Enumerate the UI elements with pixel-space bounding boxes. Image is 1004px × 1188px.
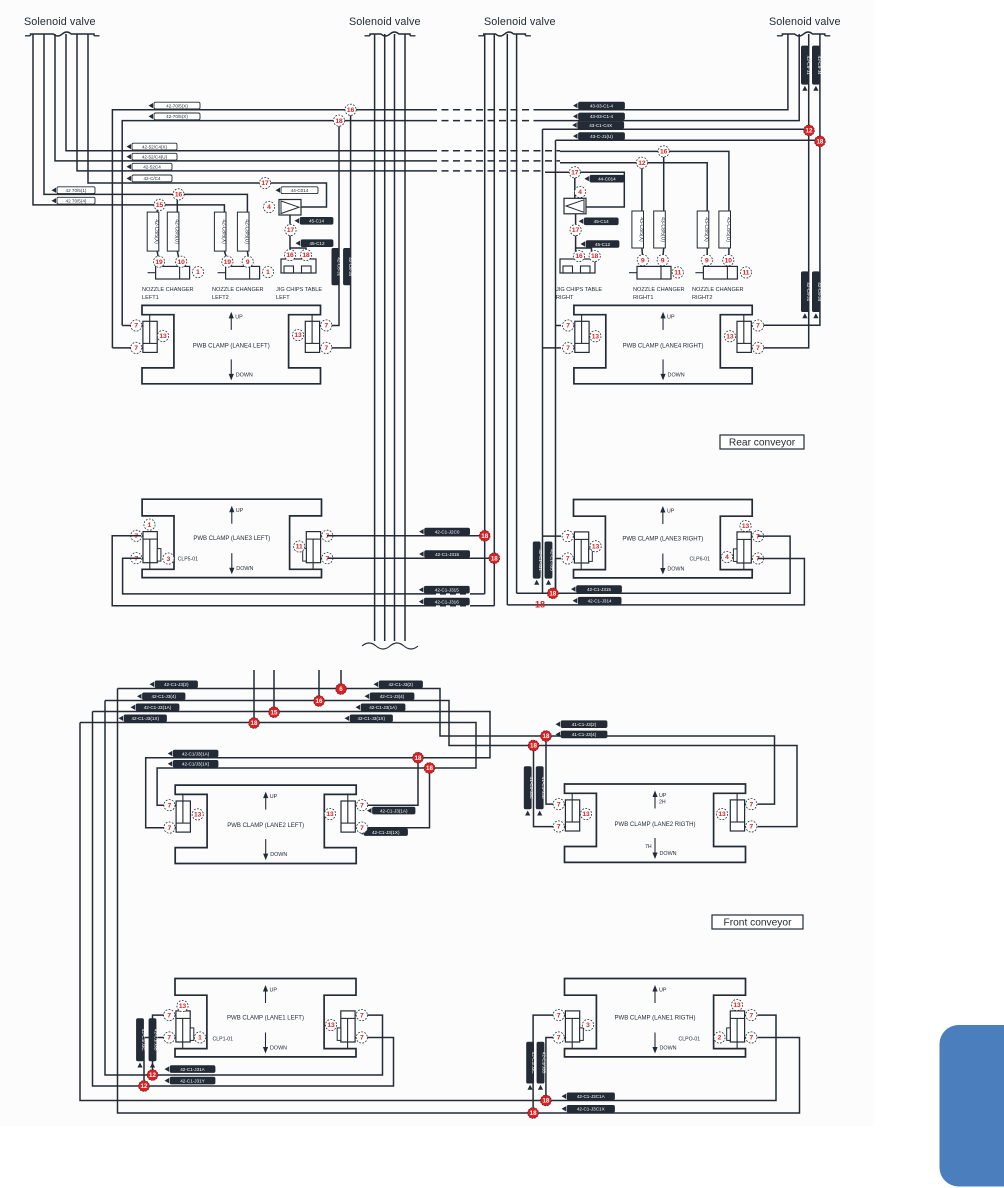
svg-text:7: 7 [566, 556, 570, 563]
svg-text:42-C/C4: 42-C/C4 [143, 176, 161, 181]
label row4 right [573, 133, 625, 140]
junction 13@595,546 [590, 541, 601, 552]
svg-text:42-52/C4(X): 42-52/C4(X) [142, 144, 167, 149]
junction 16@178,194 [173, 189, 184, 200]
svg-text:43-C8/5(U): 43-C8/5(U) [660, 217, 666, 242]
svg-text:42-C1-J315: 42-C1-J315 [435, 588, 459, 593]
label rowE [52, 187, 96, 194]
svg-text:42-C1-J35: 42-C1-J35 [550, 549, 555, 571]
solenoid valve manifold SV3 [478, 32, 531, 36]
svg-text:42-C1-J31Y: 42-C1-J31Y [180, 1078, 205, 1083]
label w4 label [168, 760, 218, 767]
label riser 347 [343, 248, 353, 285]
svg-text:UP: UP [659, 793, 667, 799]
wire SV3 line 3 [506, 34, 508, 605]
pwb clamp block LANE3 LEFT [131, 499, 333, 577]
wire 18d riser [533, 1015, 556, 1113]
label B2L right label2 [359, 829, 408, 836]
svg-text:7: 7 [324, 323, 328, 330]
svg-text:RIGHT2: RIGHT2 [692, 295, 713, 301]
svg-text:42-C1/J3C: 42-C1/J3C [531, 1052, 536, 1075]
svg-text:18: 18 [530, 1110, 537, 1117]
wire NOZ1 cyl2 drop [177, 251, 179, 266]
pwb clamp block LANE1 RIGHT [553, 979, 757, 1057]
svg-text:13: 13 [726, 334, 734, 341]
junction 18@339,120 [333, 115, 344, 126]
label rowF [52, 197, 96, 204]
junction 13@745,526 [740, 520, 751, 531]
svg-text:2: 2 [718, 1035, 722, 1042]
wire B3L 7b wire [123, 558, 430, 594]
svg-text:18: 18 [591, 253, 599, 260]
junction 13@737,1005 [731, 999, 742, 1010]
wire hanging stub c [318, 670, 320, 701]
svg-text:42-C1-J3(2): 42-C1-J3(2) [388, 682, 413, 687]
junction 17@265,183 [259, 177, 270, 188]
solenoid valve manifold SV1 [25, 32, 100, 36]
svg-text:42-52C4: 42-52C4 [143, 165, 161, 170]
wire rowF drop to NOZ1 left cyl [156, 205, 158, 212]
label wireV label [419, 598, 470, 605]
junction 11@746,272 [740, 267, 751, 278]
junction 13@197,814 [192, 809, 203, 820]
svg-text:42-C1-J3(1A): 42-C1-J3(1A) [144, 705, 172, 710]
junction 13@330,814 [324, 808, 335, 819]
wire B4L right-top riser [330, 121, 339, 326]
label r2 left [137, 693, 185, 700]
junction 13@182,1006 [177, 1000, 188, 1011]
wire stub B3R port7b-left [556, 558, 562, 560]
svg-text:1: 1 [196, 269, 200, 276]
wire right filter feed drop [574, 172, 576, 198]
junction 18@484,535 [479, 530, 490, 541]
junction 3@588,1025 [582, 1019, 593, 1030]
wire 18c riser [546, 1038, 556, 1101]
wire break squiggle SV2 [362, 643, 418, 649]
svg-text:17: 17 [287, 227, 295, 234]
wire B2R 18a drop [546, 736, 560, 804]
svg-text:18: 18 [491, 555, 498, 562]
junction 18@546,736 [541, 731, 552, 742]
label B3R vlabel1 [533, 542, 543, 585]
junction 18@594,256 [589, 250, 600, 261]
wire B2L 7b-right riser [357, 768, 430, 828]
label B2R label1 [556, 721, 608, 728]
svg-text:11: 11 [296, 544, 303, 551]
junction 18@545,1100 [541, 1095, 552, 1106]
junction 13@729,336 [724, 331, 735, 342]
junction 18@494,558 [489, 553, 500, 564]
svg-text:4: 4 [725, 554, 729, 561]
svg-text:UP: UP [270, 988, 278, 994]
svg-text:42-C1-J315: 42-C1-J315 [435, 552, 459, 557]
label r2 right [365, 693, 415, 700]
svg-text:18: 18 [543, 733, 550, 740]
wire SV3 line 2 [493, 34, 495, 606]
wire NOZR2 cyl2 low [728, 248, 730, 266]
label line2 right [573, 113, 625, 120]
svg-text:7: 7 [167, 1012, 171, 1019]
svg-text:DOWN: DOWN [660, 851, 677, 857]
svg-text:Front conveyor: Front conveyor [724, 918, 793, 929]
label 45-C12 left [296, 240, 334, 247]
junction 3@168,558 [163, 553, 174, 564]
junction 9@642,260 [637, 255, 648, 266]
svg-text:Rear conveyor: Rear conveyor [729, 438, 796, 449]
svg-text:11: 11 [743, 270, 750, 277]
junction 18@418,757 [413, 752, 424, 763]
svg-text:UP: UP [667, 314, 675, 320]
svg-text:17: 17 [571, 170, 579, 177]
junction 10@728,260 [723, 255, 734, 266]
junction 12@144,1086 [139, 1081, 150, 1092]
wire NOZR1 cyl2 drop [663, 151, 665, 211]
svg-text:DOWN: DOWN [270, 1046, 287, 1052]
wire wireA [153, 1015, 383, 1075]
svg-text:16: 16 [286, 252, 294, 259]
svg-text:CLP1-01: CLP1-01 [213, 1037, 234, 1043]
svg-text:DOWN: DOWN [667, 567, 684, 573]
label row3 right [572, 122, 624, 129]
label rowC [127, 163, 173, 170]
svg-text:42-C1-J3C1X: 42-C1-J3C1X [577, 1107, 605, 1112]
junction 9@247,261 [242, 256, 253, 267]
solenoid valve manifold SV4 [777, 32, 830, 36]
solenoid valve manifold SV2 [365, 32, 416, 36]
svg-text:42-C1-J3C1A: 42-C1-J3C1A [577, 1094, 606, 1099]
wire stub B3R port7a-left [543, 535, 562, 537]
svg-text:43-C8/5(U): 43-C8/5(U) [725, 217, 731, 242]
svg-text:13: 13 [326, 811, 334, 818]
wire NOZR1 cyl1 low [641, 248, 644, 266]
label line1 left [149, 102, 201, 109]
svg-text:13: 13 [582, 811, 590, 818]
wire row r2 [105, 701, 797, 827]
junction 18@254,723 [249, 718, 260, 729]
svg-text:7: 7 [168, 802, 172, 809]
pwb clamp block LANE4 LEFT [131, 305, 332, 383]
junction 19@227,261 [222, 256, 233, 267]
svg-text:42-C1-J3(1A): 42-C1-J3(1A) [369, 705, 397, 710]
svg-text:16: 16 [347, 107, 355, 114]
pwb clamp block LANE2 LEFT [164, 785, 368, 863]
jig chips table actuator right [560, 259, 595, 273]
nozzle changer actuator NOZ1 [148, 266, 190, 279]
pwb clamp block LANE4 RIGHT [563, 305, 764, 383]
svg-text:42-C8-J4: 42-C8-J4 [817, 56, 822, 75]
wire 12b riser [144, 1038, 165, 1087]
svg-text:18: 18 [251, 720, 258, 727]
junction 15@159,204 [154, 199, 165, 210]
svg-text:42-C1/J3C: 42-C1/J3C [141, 1029, 146, 1052]
svg-text:18: 18 [426, 765, 433, 772]
label 45-C12 right [581, 241, 620, 248]
label B2R vlabel1 [524, 767, 534, 816]
junction 13@722,814 [716, 808, 727, 819]
wire vertical 555.5 [555, 140, 557, 593]
wire row r3 loop [93, 712, 491, 828]
svg-text:19: 19 [155, 259, 163, 266]
svg-text:7: 7 [134, 345, 138, 352]
svg-text:42-C1-J314: 42-C1-J314 [588, 599, 612, 604]
rear conveyor label [720, 435, 804, 449]
svg-text:42 70/5(4): 42 70/5(4) [66, 199, 87, 204]
label NOZ2 cyl1 [214, 212, 226, 251]
svg-text:6: 6 [339, 686, 343, 693]
wire B4L left-top feed [122, 325, 131, 327]
wire NOZR2 cyl1 low [706, 248, 708, 266]
svg-text:42-C1/J3(1X): 42-C1/J3(1X) [182, 762, 210, 767]
junction 13@586,814 [580, 808, 591, 819]
svg-text:42 70/5(1): 42 70/5(1) [66, 188, 87, 193]
svg-text:42-C8-J4: 42-C8-J4 [817, 282, 822, 301]
svg-text:7: 7 [324, 345, 328, 352]
svg-text:13: 13 [159, 333, 167, 340]
svg-text:NOZZLE CHANGER: NOZZLE CHANGER [633, 287, 685, 293]
svg-text:42-C1-J2C0: 42-C1-J2C0 [435, 529, 460, 534]
svg-text:7: 7 [749, 824, 753, 831]
wire row r1 [118, 689, 775, 805]
svg-text:42-52/C4(U): 42-52/C4(U) [142, 155, 168, 160]
svg-text:7: 7 [566, 323, 570, 330]
label r1 left [150, 681, 198, 688]
svg-text:1: 1 [148, 522, 152, 529]
svg-text:45-C12: 45-C12 [309, 241, 325, 246]
jig chips table actuator left [281, 259, 316, 273]
svg-text:PWB CLAMP (LANE4 LEFT): PWB CLAMP (LANE4 LEFT) [193, 343, 270, 349]
label w3 label [168, 750, 218, 757]
wire SV2 line 1 [374, 34, 376, 641]
svg-text:7: 7 [360, 1035, 364, 1042]
svg-text:JIG CHIPS TABLE: JIG CHIPS TABLE [556, 287, 602, 293]
svg-text:42-C1-J3(1X): 42-C1-J3(1X) [131, 716, 159, 721]
svg-text:PWB CLAMP (LANE1 LEFT): PWB CLAMP (LANE1 LEFT) [227, 1016, 304, 1022]
svg-text:42-C1/J3(1A): 42-C1/J3(1A) [182, 751, 210, 756]
svg-text:10: 10 [725, 257, 733, 264]
junction 9@662,260 [657, 255, 668, 266]
junction 16@663,151 [658, 146, 669, 157]
svg-text:18: 18 [542, 1098, 549, 1105]
svg-text:NOZZLE CHANGER: NOZZLE CHANGER [142, 287, 194, 293]
label B3L right-bottom label [419, 551, 470, 558]
svg-text:CLPO-01: CLPO-01 [679, 1037, 701, 1043]
svg-text:PWB CLAMP (LANE3 RIGHT): PWB CLAMP (LANE3 RIGHT) [622, 537, 703, 543]
svg-text:7: 7 [749, 801, 753, 808]
label B1R vlabel2 [537, 1042, 547, 1090]
svg-text:1: 1 [266, 269, 270, 276]
junction 18@552,593 [547, 588, 558, 599]
label SV4 line4 low [812, 272, 822, 319]
svg-text:4: 4 [267, 204, 271, 211]
svg-text:2H: 2H [659, 800, 666, 806]
wire rowC dashed [430, 170, 545, 172]
svg-text:45-C14: 45-C14 [594, 219, 610, 224]
junction 15@274,712 [269, 707, 280, 718]
label 44-C014 left [276, 187, 319, 194]
svg-text:42-C8-J1: 42-C8-J1 [337, 257, 342, 276]
wire rowD [88, 34, 327, 207]
wire wire2 lane1 [430, 1038, 800, 1114]
label SV4 line3 top [801, 46, 811, 91]
svg-text:12: 12 [141, 1083, 148, 1090]
pwb clamp block LANE2 RIGHT [553, 784, 757, 862]
wire B2L 7a-right riser [357, 758, 418, 806]
svg-text:42-C8/5(X): 42-C8/5(X) [153, 219, 159, 244]
svg-text:19: 19 [224, 259, 232, 266]
svg-text:7: 7 [557, 801, 561, 808]
svg-text:LEFT1: LEFT1 [142, 295, 159, 301]
filter/regulator left [279, 200, 301, 216]
svg-text:7: 7 [167, 1035, 171, 1042]
junction 13@595,336 [590, 331, 601, 342]
label B1L vlabel1 [136, 1019, 146, 1068]
wire line1 dashed segment [430, 109, 540, 111]
label line2 left [149, 113, 201, 120]
svg-text:15: 15 [156, 202, 164, 209]
svg-text:42-C1-J3(1X): 42-C1-J3(1X) [357, 716, 385, 721]
wire B3L 7a wire dashed [430, 605, 475, 607]
svg-text:7H: 7H [645, 844, 652, 850]
wire left jig branch [290, 248, 306, 259]
label B3R vlabel2 [545, 542, 555, 585]
label NOZR1 cyl2 [654, 211, 666, 248]
label rowB [127, 153, 178, 160]
svg-text:RIGHT: RIGHT [556, 295, 574, 301]
svg-text:Solenoid valve: Solenoid valve [24, 16, 96, 28]
label B2L right label1 [367, 807, 415, 814]
svg-text:13: 13 [592, 544, 600, 551]
svg-text:12: 12 [638, 160, 646, 167]
svg-text:DOWN: DOWN [668, 372, 685, 378]
junction 16@350,109 [345, 104, 356, 115]
junction 17@290,230 [285, 224, 296, 235]
svg-text:41-C1-J3(4): 41-C1-J3(4) [572, 732, 597, 737]
label B1R vlabel1 [527, 1042, 537, 1090]
label r4 left [119, 715, 167, 722]
wire rowA [66, 34, 430, 151]
wire 12a riser [153, 1015, 166, 1075]
wire vertical x80 [80, 723, 430, 1101]
svg-text:42-70/5(X): 42-70/5(X) [166, 114, 188, 119]
wire wire1 lane1 [430, 1015, 776, 1100]
svg-text:LEFT: LEFT [276, 295, 290, 301]
label NOZ1 cyl2 [167, 212, 179, 251]
junction 17@574,172 [569, 167, 580, 178]
svg-text:NOZZLE CHANGER: NOZZLE CHANGER [212, 287, 264, 293]
svg-text:7: 7 [168, 825, 172, 832]
svg-text:7: 7 [134, 323, 138, 330]
svg-text:PWB CLAMP (LANE3 LEFT): PWB CLAMP (LANE3 LEFT) [193, 536, 270, 542]
svg-text:18: 18 [302, 252, 310, 259]
wire row4 right run [556, 139, 820, 141]
svg-text:7: 7 [756, 323, 760, 330]
wire SV4 line4 drop [758, 34, 820, 325]
junction 4@580,192 [575, 186, 586, 197]
wire stub B4R port7b-left [543, 347, 562, 349]
svg-text:Solenoid valve: Solenoid valve [484, 16, 556, 28]
wire SV2 line 4 [404, 34, 406, 641]
svg-text:PWB CLAMP (LANE4 RIGHT): PWB CLAMP (LANE4 RIGHT) [623, 343, 704, 349]
svg-text:13: 13 [592, 334, 600, 341]
svg-text:DOWN: DOWN [236, 566, 253, 572]
junction 13@298,335 [292, 329, 303, 340]
svg-text:DOWN: DOWN [660, 1046, 677, 1052]
wire NOZ1 cyl1 drop [157, 251, 158, 266]
svg-text:Solenoid valve: Solenoid valve [769, 16, 841, 28]
label wireU label [419, 586, 470, 593]
label wireB label [165, 1077, 216, 1084]
junction 18@429,768 [424, 763, 435, 774]
wire NOZR1 cyl2 low [663, 248, 664, 266]
svg-text:1: 1 [198, 1035, 202, 1042]
label B1L vlabel2 [149, 1019, 159, 1068]
svg-text:Solenoid valve: Solenoid valve [349, 16, 421, 28]
svg-text:42-C8-J1: 42-C8-J1 [806, 56, 811, 75]
svg-text:UP: UP [270, 794, 278, 800]
svg-text:7: 7 [566, 345, 570, 352]
junction 1@198,272 [192, 266, 203, 277]
label wireA label [165, 1066, 216, 1073]
svg-text:UP: UP [235, 314, 243, 320]
label wire1 label [562, 1093, 615, 1100]
label B2R label2 [556, 731, 608, 738]
svg-text:18: 18 [530, 743, 537, 750]
label B3L right-top label [419, 528, 470, 535]
svg-text:13: 13 [294, 332, 302, 339]
wire B3L 7b wire end [475, 593, 485, 595]
wire B2R 18b drop [534, 746, 560, 827]
svg-text:43-C1-C4X: 43-C1-C4X [589, 123, 612, 128]
wire SV2 line 2 [384, 34, 386, 641]
svg-text:18: 18 [816, 138, 823, 145]
wire row r4 loop [80, 723, 476, 806]
wire B4L left-bottom feed [112, 347, 131, 349]
svg-text:7: 7 [749, 1035, 753, 1042]
label SV4 line4 top [812, 46, 822, 91]
junction 13@163,336 [157, 330, 168, 341]
wire rowB right [560, 163, 707, 211]
svg-text:PWB CLAMP (LANE2 RIGTH): PWB CLAMP (LANE2 RIGTH) [615, 822, 696, 828]
svg-text:13: 13 [194, 812, 202, 819]
label r3 right [356, 704, 406, 711]
svg-text:LEFT2: LEFT2 [212, 295, 229, 301]
nozzle changer actuator NOZ2 [218, 266, 260, 279]
wire SV3 line 4 [516, 34, 518, 593]
svg-text:7: 7 [566, 533, 570, 540]
label 45-C14 left [295, 217, 334, 224]
wire vertical x105 [105, 701, 153, 1076]
junction 19@159,261 [153, 256, 164, 267]
junction 12@152,1075 [147, 1070, 158, 1081]
junction 10@181,261 [176, 256, 187, 267]
svg-text:42-C1-J3(2): 42-C1-J3(2) [164, 682, 189, 687]
wire hanging stub a [253, 670, 255, 723]
wire left filter output [289, 215, 291, 259]
svg-text:43-03-C1-4: 43-03-C1-4 [590, 114, 614, 119]
svg-text:13: 13 [733, 1002, 741, 1009]
svg-text:17: 17 [572, 227, 580, 234]
junction 16@319,701 [314, 696, 325, 707]
wire line2 left segment [122, 121, 430, 326]
junction 1@149,524 [144, 519, 155, 530]
svg-text:13: 13 [742, 523, 750, 530]
svg-text:9: 9 [661, 257, 665, 264]
wire left filter feed [300, 206, 302, 208]
wire B3L 7b wire dashed [430, 593, 475, 595]
svg-text:42-C8/5(U): 42-C8/5(U) [243, 219, 249, 244]
label r3 left [131, 704, 180, 711]
svg-text:42-C8/5(U): 42-C8/5(U) [173, 219, 179, 244]
